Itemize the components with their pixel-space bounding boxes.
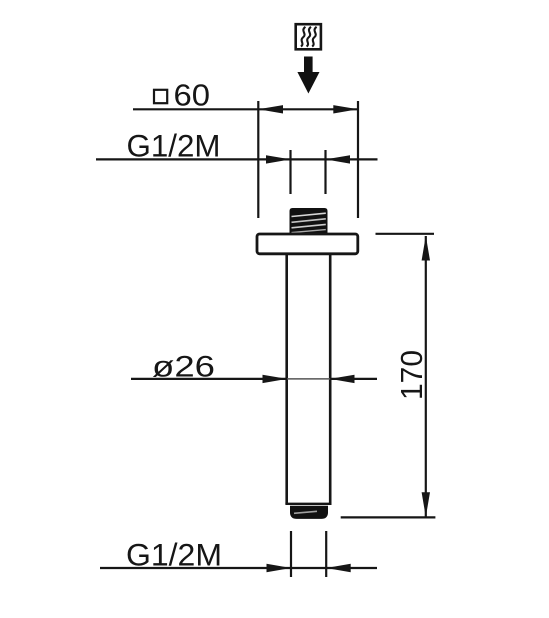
arrowhead 60 left xyxy=(258,105,283,113)
thread witness line top left xyxy=(289,150,291,194)
flow direction arrow xyxy=(297,57,319,94)
ceiling flange xyxy=(257,234,358,254)
extension line left xyxy=(257,101,259,218)
svg-text:60: 60 xyxy=(174,77,211,112)
thread witness line top right xyxy=(324,150,326,194)
dimension line G1/2M top xyxy=(96,158,378,160)
steam wave 1 xyxy=(301,27,305,47)
dimension line G1/2M bottom xyxy=(100,567,377,569)
arrowhead G1/2M bottom right xyxy=(326,564,351,572)
extension line 170 bottom xyxy=(341,516,436,518)
dimension text square-60 xyxy=(154,90,167,103)
top thread groove highlights xyxy=(292,213,326,216)
arrowhead 170 down xyxy=(422,492,430,517)
arrowhead 60 right xyxy=(333,105,358,113)
arrowhead diameter-26 right xyxy=(330,375,355,383)
shower arm tube right wall xyxy=(329,254,332,504)
arrowhead G1/2M top right xyxy=(326,155,351,163)
steam wave 3 xyxy=(312,27,316,47)
svg-text:170: 170 xyxy=(394,350,429,400)
arrowhead 170 up xyxy=(422,236,430,261)
shower arm tube left wall xyxy=(285,254,288,504)
tube bottom edge xyxy=(285,503,331,505)
thread witness line bottom right xyxy=(325,531,327,577)
arrowhead G1/2M bottom left xyxy=(267,564,292,572)
top inlet thread xyxy=(290,208,328,235)
bottom thread groove highlight xyxy=(294,511,317,513)
arrowhead G1/2M top left xyxy=(266,155,291,163)
bottom outlet thread xyxy=(290,506,328,519)
hot water symbol box xyxy=(296,24,321,49)
dimension line 60 xyxy=(133,108,358,110)
thread witness line bottom left xyxy=(290,531,292,577)
svg-text:G1/2M: G1/2M xyxy=(127,128,221,164)
extension line right xyxy=(357,101,359,218)
arrowhead diameter-26 left xyxy=(263,375,288,383)
dimension line 170 xyxy=(425,236,427,517)
steam wave 2 xyxy=(307,27,311,47)
extension line 170 top xyxy=(376,233,435,235)
dimension line diameter-26 xyxy=(131,378,287,380)
